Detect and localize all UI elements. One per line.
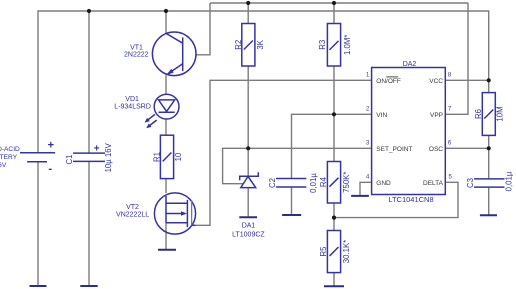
svg-text:750K*: 750K* [342, 172, 351, 193]
svg-text:6V: 6V [0, 162, 7, 169]
wire R5 top link [333, 218, 335, 231]
svg-text:VD1: VD1 [125, 96, 139, 103]
R5 terminator bar [324, 285, 344, 287]
wire VT2 source to bar [165, 223, 167, 250]
wire R4 bottom to node [333, 203, 335, 218]
battery terminator bar [30, 285, 47, 287]
svg-text:3K: 3K [256, 39, 265, 49]
junction DA1/SET_POINT [246, 146, 250, 150]
svg-text:VIN: VIN [376, 112, 387, 119]
transistor VT1 2N2222 [152, 32, 196, 76]
wire DA1 cathode link [247, 148, 249, 175]
MOSFET VT2 VN2222LL [154, 193, 195, 234]
svg-text:C1: C1 [65, 155, 74, 165]
junction VCC/R6 [487, 78, 491, 82]
VT2 source terminator bar [158, 249, 176, 251]
svg-text:VT2: VT2 [126, 204, 139, 211]
svg-text:10M: 10M [495, 106, 504, 121]
svg-text:DA2: DA2 [403, 61, 417, 68]
DA1 terminator bar [239, 216, 257, 218]
wire R6 top link [488, 80, 490, 92]
svg-text:-: - [48, 163, 52, 175]
wire VT1 collector to rail [165, 11, 167, 33]
wire SET_POINT pin3 [248, 147, 371, 149]
wire battery+ top rail to VCC node [38, 11, 489, 152]
wire R5 bottom [333, 273, 335, 287]
C1 terminator bar [80, 285, 97, 287]
wire pin7 VPP riser [445, 3, 468, 114]
wire R4 top link [333, 114, 335, 161]
svg-text:GND: GND [376, 180, 391, 187]
LED VD1 L-934LSRD [154, 94, 179, 119]
wire C1 bottom [88, 161, 90, 286]
wire C3 bottom [488, 187, 490, 215]
wire VCC pin8 [445, 79, 488, 81]
wire DA1 feedback loop [223, 148, 249, 183]
svg-text:VCC: VCC [429, 78, 443, 85]
wire ON/OFF pin1 to VT2 gate [196, 80, 372, 225]
wire GND pin4 [360, 182, 372, 196]
svg-text:L-934LSRD: L-934LSRD [114, 103, 151, 110]
wire C2 bottom [291, 187, 293, 215]
capacitor C1 plates [73, 153, 105, 161]
wire OSC pin6 [445, 147, 488, 149]
svg-text:ON/OFF: ON/OFF [376, 78, 401, 85]
wire VT1 base to VPP rail [196, 3, 210, 55]
svg-text:2N2222: 2N2222 [124, 52, 149, 59]
svg-text:DELTA: DELTA [423, 180, 444, 187]
capacitor C3 0,01u [474, 179, 505, 187]
junction R4/R5/DELTA [332, 216, 336, 220]
svg-text:0,01µ: 0,01µ [309, 173, 318, 193]
svg-text:LTC1041CN8: LTC1041CN8 [388, 195, 433, 204]
pin label ON/OFF with overline [376, 77, 401, 85]
wire battery bottom [37, 162, 39, 286]
junction R2/VPP rail [246, 1, 250, 5]
wire DELTA pin5 to R4/R5 node [334, 182, 458, 217]
C2 terminator bar [282, 214, 301, 216]
wire C1 top to rail [88, 11, 90, 153]
junction VT1 collector/rail [164, 9, 168, 13]
svg-text:1.0M*: 1.0M* [343, 35, 352, 55]
wire VD1 to R1 [165, 119, 167, 135]
svg-text:LT1009CZ: LT1009CZ [232, 232, 265, 239]
wire R2 bottom to node SET_POINT [247, 66, 249, 148]
svg-text:LEAD-ACID: LEAD-ACID [0, 146, 20, 153]
GND pin terminator bar [351, 195, 369, 197]
svg-text:SET_POINT: SET_POINT [376, 146, 412, 153]
junction R3/VPP rail [332, 1, 336, 5]
svg-text:R4: R4 [319, 177, 328, 188]
svg-text:DA1: DA1 [242, 223, 256, 230]
junction OSC/R6/C3 [487, 146, 491, 150]
VD1 emission arrows [145, 114, 157, 128]
C3 terminator bar [480, 214, 497, 216]
svg-text:VN2222LL: VN2222LL [116, 211, 149, 218]
svg-text:VPP: VPP [430, 112, 443, 119]
svg-text:10: 10 [174, 152, 183, 161]
capacitor C2 0,01u [276, 179, 306, 188]
resistor R6 10M [482, 93, 495, 136]
wire VT1 emitter to VD1 [165, 75, 167, 94]
svg-text:+: + [94, 144, 100, 155]
zener reference DA1 LT1009CZ [240, 172, 259, 187]
svg-text:10µ 16V: 10µ 16V [104, 142, 113, 172]
svg-text:R1: R1 [153, 152, 162, 162]
wire R2 top link [247, 3, 249, 24]
junction R3/VIN [332, 112, 336, 116]
svg-text:C3: C3 [466, 178, 475, 188]
svg-text:30.1K*: 30.1K* [342, 240, 351, 263]
svg-text:C2: C2 [268, 178, 277, 188]
junction C1/rail [87, 9, 91, 13]
IC DA2 LTC1041CN8 box [372, 68, 446, 195]
wire R3 top link [333, 3, 335, 24]
wire C3 top [488, 148, 490, 179]
wire VIN pin2 to C2 [292, 114, 372, 178]
resistor R4 750K* [327, 162, 340, 204]
resistor R2 3K [242, 24, 255, 67]
svg-text:+: + [48, 139, 54, 151]
resistor R3 1.0M* [327, 24, 340, 67]
svg-text:R6: R6 [474, 109, 483, 119]
svg-text:BATTERY: BATTERY [0, 154, 18, 161]
battery 6V plates [20, 153, 55, 162]
wire VPP top rail [210, 2, 468, 4]
svg-text:VT1: VT1 [130, 45, 143, 52]
wire R6 bottom link [488, 135, 490, 148]
svg-text:OSC: OSC [429, 146, 443, 153]
wire R3 bottom link [333, 66, 335, 114]
wire DA1 anode to bar [247, 188, 249, 217]
wire R1 to VT2 drain [165, 179, 167, 194]
svg-text:R3: R3 [318, 40, 327, 50]
resistor R5 30.1K* [327, 231, 340, 273]
svg-text:R2: R2 [234, 40, 243, 50]
svg-text:0,01µ: 0,01µ [505, 171, 514, 191]
battery label LEAD-ACID BATTERY 6V [0, 146, 20, 169]
resistor R1 10 [160, 135, 173, 178]
svg-text:R5: R5 [319, 246, 328, 257]
